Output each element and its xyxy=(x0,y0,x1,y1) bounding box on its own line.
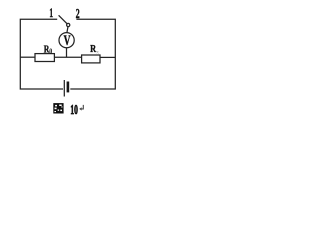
svg-text:10: 10 xyxy=(70,103,78,118)
svg-text:0: 0 xyxy=(49,47,52,55)
svg-text:x: x xyxy=(96,49,99,55)
svg-text:2: 2 xyxy=(76,7,80,22)
svg-text:V: V xyxy=(64,33,71,49)
svg-text:1: 1 xyxy=(49,6,53,20)
